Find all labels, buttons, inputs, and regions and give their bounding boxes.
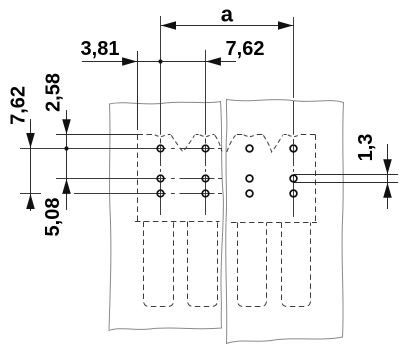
svg-text:a: a	[221, 2, 234, 27]
centre line column 1	[160, 16, 162, 215]
solder slot U2	[188, 222, 218, 307]
plated hole left block r2c2	[202, 175, 209, 182]
svg-text:3,81: 3,81	[81, 38, 120, 60]
hole right block r2c4	[290, 175, 297, 182]
svg-text:1,3: 1,3	[355, 134, 377, 162]
dimension 2,58 / 5,08 left	[66, 110, 68, 210]
centre line column 4	[293, 17, 295, 217]
plated hole left block r2c1	[157, 175, 164, 182]
V-contour between columns 3-4	[263, 135, 282, 152]
extension line for 2,58 upper	[56, 134, 140, 136]
dashed body outline, right block	[231, 135, 317, 223]
notch over hole column 1	[155, 135, 166, 137]
hole right block r3c3	[246, 190, 253, 197]
plated hole left block r3c1	[157, 190, 164, 197]
solder slot U1	[144, 222, 174, 307]
right connector block outline (break lines)	[226, 100, 344, 344]
dimension line 3,81 / 7,62 top	[82, 61, 236, 63]
extension line for 3,81	[137, 51, 139, 130]
svg-text:5,08: 5,08	[42, 198, 64, 237]
svg-text:7,62: 7,62	[226, 38, 265, 60]
hole right block r2c3	[246, 175, 253, 182]
plated hole left block r3c2	[202, 190, 209, 197]
hole right block r1c4	[290, 145, 297, 152]
arc to break, left block	[215, 135, 222, 151]
dashed body outline, left block	[135, 135, 220, 222]
hole right block r1c3	[246, 145, 253, 152]
notch over hole column 4	[288, 135, 299, 137]
centre line row 3	[20, 193, 222, 195]
svg-text:7,62: 7,62	[8, 86, 30, 125]
notch over hole column 2	[200, 135, 211, 137]
solder slot U3	[238, 223, 267, 307]
svg-text:2,58: 2,58	[42, 73, 64, 112]
dimension a	[161, 25, 294, 27]
solder slot U4	[282, 223, 311, 307]
hole right block r3c4	[290, 190, 297, 197]
plated hole left block r1c2	[202, 145, 209, 152]
dimension 7,62 left	[30, 119, 32, 211]
V-contour between columns 1-2	[171, 135, 194, 152]
centre line column 2	[205, 50, 207, 215]
centre line row 1	[20, 148, 222, 150]
notch over hole column 3	[244, 135, 255, 137]
dimension 1,3 right	[294, 144, 399, 209]
left connector block outline (break lines)	[109, 102, 223, 331]
centre line row 2	[56, 178, 222, 180]
arc from break, right block	[227, 135, 236, 152]
plated hole left block r1c1	[157, 145, 164, 152]
